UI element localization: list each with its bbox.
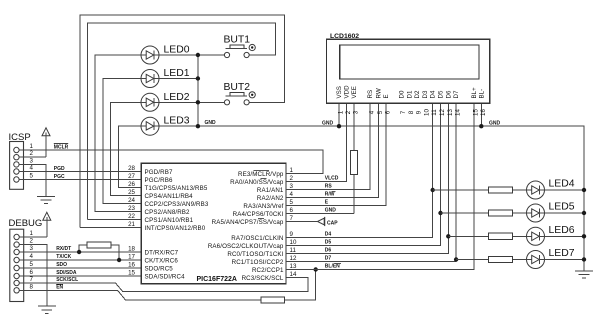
LED LED6 [527, 225, 575, 246]
junction VSS-GND [337, 124, 341, 128]
svg-text:5: 5 [377, 110, 384, 114]
svg-text:6: 6 [30, 269, 34, 276]
svg-text:RX/DT: RX/DT [56, 246, 71, 252]
wire overline MCLR on pin1 label [254, 170, 270, 172]
svg-text:INT/CPS0/AN12/RB0: INT/CPS0/AN12/RB0 [145, 225, 206, 232]
junction BL- GND [479, 124, 483, 128]
svg-text:RA4/CPS6/T0CKI: RA4/CPS6/T0CKI [233, 211, 284, 218]
svg-text:5: 5 [30, 173, 34, 180]
svg-text:GND: GND [489, 120, 501, 126]
svg-text:LED1: LED1 [164, 68, 190, 79]
svg-text:VLCD: VLCD [325, 175, 339, 181]
wire SDI/SDA net: DEBUG pin6 to chip pin 15 [19, 275, 141, 277]
resistor R2 in EN line (bottom) [261, 270, 316, 303]
wire MCLR overline [54, 143, 68, 145]
pin numbers DEBUG 1-8 [30, 230, 34, 290]
wire LED5 row [441, 212, 489, 214]
svg-text:4: 4 [30, 253, 34, 260]
svg-text:PGC/RB6: PGC/RB6 [145, 177, 173, 184]
pin labels U1 left side [145, 169, 209, 280]
svg-text:2: 2 [30, 150, 34, 157]
svg-text:RC2/CCP1: RC2/CCP1 [252, 267, 284, 274]
svg-text:28: 28 [128, 165, 135, 172]
wire LED1 anode to junction vertical [159, 78, 198, 80]
svg-text:8: 8 [30, 283, 34, 290]
LED LED3 [141, 115, 190, 135]
svg-text:D5: D5 [325, 239, 332, 245]
svg-text:7: 7 [30, 276, 34, 283]
svg-text:RE3/MCLR/Vpp: RE3/MCLR/Vpp [238, 171, 284, 178]
LCD module LCD1602 [327, 33, 490, 103]
svg-text:9: 9 [416, 110, 423, 114]
svg-text:RS: RS [367, 90, 374, 99]
svg-text:17: 17 [128, 254, 135, 261]
svg-text:10: 10 [423, 109, 430, 116]
resistor R6 for LED6 [489, 233, 513, 239]
svg-text:GND: GND [205, 120, 217, 126]
svg-text:MCLR: MCLR [54, 144, 69, 150]
wire LED1 cathode down to chip pin 24 [103, 79, 141, 204]
wire overline SS on pin2 label [261, 178, 267, 180]
junction LED1 node [196, 76, 200, 80]
svg-text:26: 26 [128, 181, 135, 188]
svg-text:D4: D4 [430, 90, 437, 98]
svg-text:D7: D7 [453, 90, 460, 98]
wire D4 net: chip pin9 up to LCD pin11 [286, 103, 433, 237]
LED LED2 [141, 92, 190, 112]
junction LED2/BUT2 node [196, 100, 200, 104]
svg-text:CAP: CAP [327, 220, 338, 226]
resistor R3 VEE contrast: vertical under LCD pin3 [350, 103, 357, 213]
resistor R1 loopback RX-TX [79, 242, 119, 260]
svg-text:LED0: LED0 [164, 45, 190, 56]
svg-text:RA2/AN2: RA2/AN2 [257, 195, 284, 202]
svg-text:BL+: BL+ [471, 87, 478, 99]
svg-text:5: 5 [30, 261, 34, 268]
svg-text:DEBUG: DEBUG [9, 218, 43, 229]
switch BUT1 [224, 35, 256, 58]
svg-text:16: 16 [480, 109, 487, 116]
junction right rail LED6 [582, 234, 586, 238]
wire LED2 cathode down to chip pin 25 [111, 102, 142, 195]
svg-text:DT/RX/RC7: DT/RX/RC7 [145, 249, 179, 256]
resistor R4 for LED4 [489, 187, 513, 193]
svg-text:D1: D1 [406, 90, 413, 98]
svg-text:GND: GND [322, 120, 334, 126]
connector DEBUG [9, 218, 43, 302]
svg-text:SCK/SCL: SCK/SCL [56, 277, 78, 283]
svg-text:LED2: LED2 [164, 92, 190, 103]
LED LED1 [141, 68, 190, 88]
junction R1 right on TX/CK [117, 258, 121, 262]
svg-text:D3: D3 [422, 90, 429, 98]
svg-text:18: 18 [128, 246, 135, 253]
svg-text:D6: D6 [445, 90, 452, 98]
pin numbers ICSP 1-5 [30, 143, 34, 180]
svg-text:VDD: VDD [343, 85, 350, 99]
junction right rail LED4 [582, 188, 586, 192]
svg-text:1: 1 [30, 230, 34, 237]
svg-text:27: 27 [128, 173, 135, 180]
svg-text:4: 4 [369, 110, 376, 114]
svg-text:1: 1 [290, 167, 294, 174]
wire W overline [332, 191, 336, 193]
ground at LED rail [575, 271, 593, 278]
ground at ICSP [37, 196, 55, 203]
wire SDO net: DEBUG pin5 to chip pin 16 [19, 267, 141, 269]
svg-text:3: 3 [30, 157, 34, 164]
wire overline SS on pin7 label [258, 218, 264, 220]
svg-text:11: 11 [431, 109, 438, 116]
svg-text:24: 24 [128, 197, 135, 204]
svg-text:RW: RW [375, 88, 382, 98]
svg-text:PIC16F722A: PIC16F722A [197, 276, 237, 283]
wire E net: chip pin5 up to LCD E [286, 103, 386, 205]
junction EN to BL/EN line [314, 267, 318, 271]
wire BUT1 inner loop: y=23.2 line, left vertical to pin 22, right vertical down to BUT1 [88, 23, 276, 219]
svg-text:CPS2/AN8/RB2: CPS2/AN8/RB2 [145, 209, 191, 216]
junction D6/LED6 [446, 234, 450, 238]
svg-text:RC0/T1OSO/T1CKI: RC0/T1OSO/T1CKI [227, 251, 283, 258]
power VCC arrow at DEBUG [43, 212, 51, 237]
svg-text:3: 3 [353, 110, 360, 114]
svg-text:2: 2 [345, 110, 352, 114]
svg-text:3: 3 [30, 245, 34, 252]
wire ICSP pin2 to VCC [19, 156, 46, 158]
svg-text:BL-: BL- [478, 89, 485, 99]
wire PGD net: ICSP pin4 to chip pin 28 [19, 171, 141, 173]
svg-text:2: 2 [30, 238, 34, 245]
resistor R7 for LED7 [489, 256, 513, 262]
svg-text:LED4: LED4 [549, 179, 575, 190]
svg-text:14: 14 [290, 271, 297, 278]
svg-text:4: 4 [30, 165, 34, 172]
svg-text:SDA/SDI/RC4: SDA/SDI/RC4 [145, 273, 186, 280]
svg-text:BUT2: BUT2 [224, 82, 251, 93]
wire RX/DT net: DEBUG pin3 to chip pin 18 [19, 251, 141, 253]
svg-text:T1G/CPS5/AN13/RB5: T1G/CPS5/AN13/RB5 [145, 185, 208, 192]
junction D5/LED5 [438, 211, 442, 215]
svg-text:25: 25 [128, 189, 135, 196]
wire RS net: chip pin3 up to LCD RS [286, 103, 370, 189]
wire LED7 row [456, 259, 488, 261]
wire GND stub: chip pin6 to VEE resistor bottom [286, 213, 354, 215]
wire SCK/SCL net: DEBUG pin7 under chip to pin 14 [19, 278, 308, 292]
connector ICSP [9, 132, 31, 190]
svg-text:D2: D2 [414, 90, 421, 98]
junction LED0/BUT1 node [196, 53, 200, 57]
wire LED6 row [448, 235, 488, 237]
svg-text:16: 16 [128, 262, 135, 269]
svg-text:E: E [383, 94, 390, 98]
svg-text:R/W: R/W [325, 191, 335, 197]
svg-text:GND: GND [325, 207, 337, 213]
svg-text:BL/EN: BL/EN [325, 263, 340, 269]
svg-text:D5: D5 [438, 90, 445, 98]
wire LED anode junction vertical [197, 55, 199, 126]
pin numbers U1 right side [290, 167, 297, 278]
svg-text:15: 15 [128, 270, 135, 277]
svg-text:RA1/AN1: RA1/AN1 [257, 187, 284, 194]
LED LED7 [527, 248, 575, 269]
svg-text:RA0/AN0/SS/Vcap: RA0/AN0/SS/Vcap [230, 179, 284, 186]
wire EN overline [56, 283, 63, 285]
wire VLCD net: chip pin2 up to LCD VDD [286, 103, 346, 181]
wire VSS to GND: LCD pin1 down to GND line [338, 103, 340, 126]
wire DEBUG pin2 to ground [19, 245, 47, 307]
LED LED4 [527, 179, 575, 200]
pin labels LCD (rotated) [336, 85, 485, 99]
svg-text:PGD: PGD [54, 166, 65, 172]
svg-text:15: 15 [472, 109, 479, 116]
svg-text:D6: D6 [325, 247, 332, 253]
svg-text:CK/TX/RC6: CK/TX/RC6 [145, 257, 179, 264]
wire EN overline in BL/EN [334, 263, 341, 265]
pin numbers U1 left side [128, 165, 135, 277]
svg-text:RC3/SCK/SCL: RC3/SCK/SCL [242, 275, 284, 282]
wire LED0 cathode down to chip pin 23 [95, 55, 141, 212]
svg-text:VSS: VSS [336, 86, 343, 98]
svg-text:LED7: LED7 [549, 248, 575, 259]
svg-text:12: 12 [439, 109, 446, 116]
svg-text:D4: D4 [325, 231, 332, 237]
svg-text:RA5/AN4/CPS7/SS/Vcap: RA5/AN4/CPS7/SS/Vcap [212, 219, 284, 226]
wire LED0 anode to junction and BUT1 [159, 54, 225, 56]
wire BUT2 top loop: y=15 top line, left vertical to pin 21, right vertical down to BUT2 [80, 15, 285, 227]
wire LED2 anode to junction and BUT2 [159, 101, 225, 103]
wire RW net: chip pin4 up to LCD RW [286, 103, 378, 197]
junction R1 left on RX/DT [77, 250, 81, 254]
svg-text:EN: EN [56, 284, 63, 290]
svg-text:RA3/AN3/Vref: RA3/AN3/Vref [243, 203, 283, 210]
svg-text:VEE: VEE [351, 86, 358, 98]
svg-text:PGC: PGC [54, 174, 65, 180]
junction D4/LED4 [431, 188, 435, 192]
wire BL- to GND: LCD pin16 down to GND line [480, 103, 482, 126]
wire BL/EN net: chip pin13 to LCD pin15 BL+ [286, 103, 474, 269]
svg-text:8: 8 [408, 110, 415, 114]
svg-text:CPS1/AN10/RB1: CPS1/AN10/RB1 [145, 217, 194, 224]
resistor R5 for LED5 [489, 210, 513, 216]
junction right rail LED7 [582, 257, 586, 261]
svg-text:SDI/SDA: SDI/SDA [56, 270, 77, 276]
wire GND net from LED3 across under LCD to right edge and down to LED ground [159, 126, 584, 271]
svg-text:14: 14 [455, 109, 462, 116]
junction right rail LED5 [582, 211, 586, 215]
svg-text:RS: RS [325, 183, 333, 189]
wire pin 22 horizontal into chip [88, 219, 142, 221]
svg-text:SDO/RC5: SDO/RC5 [145, 265, 174, 272]
svg-text:LED3: LED3 [164, 115, 190, 126]
ground at DEBUG [38, 306, 56, 313]
svg-text:RA6/OSC2/CLKOUT/Vcap: RA6/OSC2/CLKOUT/Vcap [208, 243, 284, 250]
svg-text:SDO: SDO [56, 262, 67, 268]
wire LED3 cathode down to chip pin 26 [118, 126, 141, 187]
svg-text:1: 1 [338, 110, 345, 114]
switch BUT2 [224, 82, 256, 105]
svg-text:6: 6 [384, 110, 391, 114]
node CAP tag triangle [318, 218, 325, 225]
svg-text:BUT1: BUT1 [224, 35, 251, 46]
wire MCLR net: ICSP pin1 to chip pin 1 (right top) [19, 150, 323, 174]
svg-text:TX/CK: TX/CK [56, 254, 71, 260]
wire D5 net: chip pin10 up to LCD pin12 [286, 103, 441, 245]
op-amp U1 PIC16F722A chip body [141, 163, 286, 284]
wire CAP stub on chip pin7 [286, 221, 317, 223]
svg-text:CCP2/CPS3/AN9/RB3: CCP2/CPS3/AN9/RB3 [145, 201, 209, 208]
pin labels U1 right side [208, 171, 284, 282]
svg-text:RA7/OSC1/CLKIN: RA7/OSC1/CLKIN [231, 235, 283, 242]
LED LED0 [141, 45, 190, 65]
svg-text:LED6: LED6 [549, 225, 575, 236]
svg-text:21: 21 [128, 221, 135, 228]
svg-text:22: 22 [128, 213, 135, 220]
junction D7/LED7 [454, 257, 458, 261]
wire DEBUG pin1 to VCC [19, 236, 47, 238]
wire D7 net: chip pin12 up to LCD pin14 [286, 103, 456, 261]
svg-text:CPS4/AN11/RB4: CPS4/AN11/RB4 [145, 193, 194, 200]
wire LED4 row [433, 189, 489, 191]
svg-text:7: 7 [400, 110, 407, 114]
svg-text:D7: D7 [325, 255, 332, 261]
LED LED5 [527, 202, 575, 223]
svg-text:13: 13 [447, 109, 454, 116]
wire pin 21 horizontal into chip [80, 227, 141, 229]
wire EN net: DEBUG pin8 under chip through resistor to BL/EN node [19, 290, 261, 300]
wire TX/CK net: DEBUG pin4 to chip pin 17 [19, 259, 141, 261]
svg-text:1: 1 [30, 143, 34, 150]
power VCC arrow at ICSP [42, 128, 50, 157]
svg-text:PGD/RB7: PGD/RB7 [145, 169, 173, 176]
wire ICSP pin3 to ground [19, 164, 46, 196]
svg-text:LED5: LED5 [549, 202, 575, 213]
wire PGC net: ICSP pin5 to chip pin 27 [19, 179, 141, 181]
junction LED3/GND node [196, 124, 200, 128]
pin numbers LCD 1-16 (rotated) [338, 109, 487, 116]
svg-text:D0: D0 [399, 90, 406, 98]
svg-text:23: 23 [128, 205, 135, 212]
svg-text:RC1/T1OSI/CCP2: RC1/T1OSI/CCP2 [232, 259, 284, 266]
wire D6 net: chip pin11 up to LCD pin13 [286, 103, 448, 253]
